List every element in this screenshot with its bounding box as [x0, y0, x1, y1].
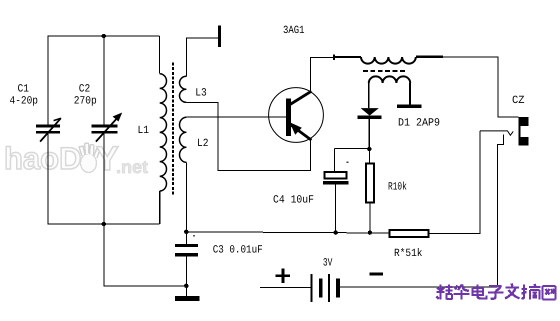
wire: junction down and right to C3 ground node — [104, 224, 187, 286]
svg-text:L3: L3 — [195, 88, 207, 100]
ground (C3) — [175, 296, 200, 301]
tick on collector wire — [333, 54, 335, 60]
svg-text:C1: C1 — [18, 83, 30, 95]
battery + sign — [276, 269, 290, 283]
svg-text:C3 0.01uF: C3 0.01uF — [213, 244, 263, 256]
wire: primary to CZ — [416, 56, 443, 58]
capacitor C3 0.01uF — [175, 244, 198, 296]
capacitor C1 (variable, 4-20p) — [36, 36, 61, 224]
core (dashed horizontal) — [363, 70, 407, 72]
node: top junction — [102, 34, 106, 38]
svg-text:.net: .net — [116, 157, 148, 177]
svg-text:270p: 270p — [74, 96, 97, 108]
node: C3 top junction — [184, 230, 188, 234]
wire: tank bottom — [48, 223, 160, 225]
watermark 精华电子文摘网 — [437, 284, 556, 300]
wire: L3 top to antenna — [186, 38, 218, 76]
battery 3V — [260, 274, 498, 302]
子 — [488, 286, 504, 299]
battery - sign — [370, 273, 384, 276]
wire: collector up — [311, 57, 335, 91]
inductor L2 — [179, 117, 186, 162]
jack CZ body — [519, 117, 529, 146]
wire: C4 top link — [335, 148, 370, 150]
node: R10k bottom junction — [368, 230, 372, 234]
wire: tank top — [48, 35, 160, 37]
网 — [543, 286, 556, 300]
stray dot — [347, 161, 349, 163]
svg-text:haoD: haoD — [4, 141, 82, 176]
电 — [473, 285, 487, 299]
svg-text:C2: C2 — [79, 83, 91, 95]
svg-text:R10k: R10k — [388, 182, 407, 194]
node: C4 bottom junction — [334, 230, 338, 234]
svg-text:3V: 3V — [323, 258, 333, 270]
watermark haoDIY.net — [4, 140, 148, 178]
ground (secondary) — [397, 104, 421, 107]
wire: L2 bottom to C3 — [185, 162, 187, 244]
svg-text:4-20p: 4-20p — [10, 96, 39, 108]
wire: secondary left to diode — [368, 83, 370, 108]
wire: L2 top to base — [186, 116, 286, 118]
wire: L3 bottom to emitter — [186, 102, 310, 170]
capacitor C2 (variable, 270p) — [92, 36, 123, 224]
jack CZ lower contact — [498, 135, 504, 287]
精 — [437, 285, 453, 300]
wire: R*51k right up to jack — [430, 131, 480, 233]
svg-text:D1 2AP9: D1 2AP9 — [398, 118, 440, 130]
transistor Q1 3AG1 — [269, 88, 324, 143]
core (dashed vertical) — [172, 63, 174, 195]
antenna bar — [218, 26, 221, 48]
文 — [505, 284, 520, 299]
node: bottom junction — [102, 222, 106, 226]
inductor L1 — [160, 36, 167, 224]
capacitor C4 10uF — [323, 172, 348, 233]
resistor R10k — [368, 149, 370, 162]
wire: mid horizontal (C3 to R*51k) — [186, 232, 388, 233]
node: diode bottom junction — [367, 147, 371, 151]
stray dot — [193, 235, 195, 237]
svg-text:L2: L2 — [197, 138, 209, 150]
华 — [454, 285, 470, 300]
transformer secondary — [369, 76, 410, 83]
svg-text:3AG1: 3AG1 — [283, 25, 305, 37]
transformer primary — [361, 57, 416, 64]
node: C3 bottom junction — [184, 284, 188, 288]
wire: secondary right to ground — [409, 83, 411, 104]
diode D1 2AP9 — [358, 108, 382, 149]
jack CZ contact arm — [480, 131, 513, 135]
svg-text:CZ: CZ — [512, 95, 525, 107]
svg-text:L1: L1 — [138, 125, 150, 137]
wire: thick to primary — [334, 56, 361, 58]
resistor R*51k — [390, 230, 429, 237]
inductor L3 — [179, 76, 186, 102]
svg-text:C4 10uF: C4 10uF — [273, 195, 314, 207]
svg-text:R*51k: R*51k — [394, 248, 423, 260]
摘 — [522, 284, 541, 300]
